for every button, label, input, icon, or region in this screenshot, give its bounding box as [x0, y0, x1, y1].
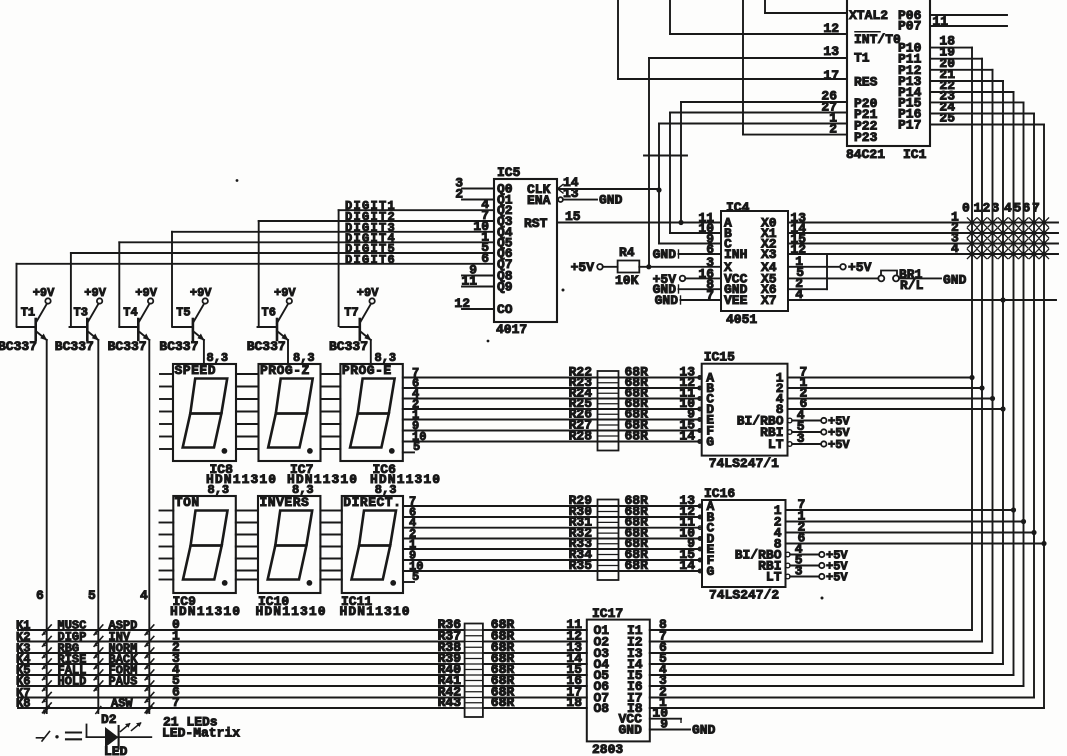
- svg-text:3: 3: [797, 431, 805, 446]
- svg-text:14: 14: [679, 429, 695, 444]
- svg-text:P17: P17: [898, 118, 921, 133]
- svg-text:+9V: +9V: [84, 286, 106, 300]
- svg-text:BC337: BC337: [159, 339, 198, 354]
- svg-text:3: 3: [795, 564, 803, 579]
- svg-text:ENA: ENA: [527, 193, 551, 208]
- svg-text:4: 4: [140, 588, 148, 603]
- svg-text:X7: X7: [761, 293, 777, 308]
- svg-text:DIRECT.: DIRECT.: [343, 495, 401, 510]
- svg-text:8,3: 8,3: [293, 351, 315, 365]
- svg-text:+9V: +9V: [274, 286, 296, 300]
- svg-text:GND: GND: [692, 723, 716, 738]
- svg-text:4051: 4051: [726, 312, 757, 327]
- svg-text:2: 2: [983, 201, 991, 216]
- svg-text:ASW: ASW: [111, 697, 133, 711]
- svg-text:10K: 10K: [615, 273, 639, 288]
- svg-text:O8: O8: [594, 701, 610, 716]
- svg-text:INVERS: INVERS: [260, 495, 310, 510]
- svg-text:Q9: Q9: [497, 280, 513, 295]
- svg-text:INT/T0: INT/T0: [854, 32, 901, 47]
- svg-text:P07: P07: [898, 19, 921, 34]
- svg-text:VEE: VEE: [724, 293, 748, 308]
- svg-text:4: 4: [795, 287, 803, 302]
- svg-text:R4: R4: [619, 245, 635, 260]
- svg-text:68R: 68R: [625, 429, 649, 444]
- svg-text:CO: CO: [497, 302, 513, 317]
- svg-text:LT: LT: [766, 570, 782, 585]
- svg-text:3: 3: [992, 201, 1000, 216]
- svg-text:13: 13: [563, 186, 579, 201]
- svg-text:5: 5: [88, 588, 96, 603]
- svg-text:BC337: BC337: [55, 339, 94, 354]
- svg-text:BC337: BC337: [108, 339, 147, 354]
- svg-text:74LS247/2: 74LS247/2: [709, 588, 779, 603]
- svg-text:DIGIT6: DIGIT6: [345, 253, 396, 267]
- svg-text:HDN11310: HDN11310: [256, 604, 327, 619]
- svg-text:+5V: +5V: [653, 272, 677, 287]
- svg-text:4: 4: [951, 241, 959, 256]
- svg-text:R28: R28: [569, 429, 593, 444]
- svg-text:6: 6: [1023, 201, 1031, 216]
- svg-text:HDN11310: HDN11310: [170, 604, 241, 619]
- svg-text:8,3: 8,3: [207, 351, 229, 365]
- svg-text:GND: GND: [619, 723, 643, 738]
- svg-text:8,3: 8,3: [375, 351, 397, 365]
- svg-text:+5V: +5V: [826, 571, 848, 585]
- svg-text:GND: GND: [655, 293, 679, 308]
- svg-text:PROG-E: PROG-E: [342, 363, 392, 378]
- svg-text:74LS247/1: 74LS247/1: [709, 456, 779, 471]
- svg-text:LED-Matrix: LED-Matrix: [162, 726, 240, 741]
- svg-text:+5V: +5V: [828, 438, 850, 452]
- svg-text:+9V: +9V: [33, 286, 55, 300]
- svg-text:+9V: +9V: [190, 286, 212, 300]
- svg-text:BC337: BC337: [0, 339, 37, 354]
- svg-text:RST: RST: [524, 216, 548, 231]
- svg-text:7: 7: [1032, 201, 1040, 216]
- svg-text:4017: 4017: [496, 322, 527, 337]
- svg-text:HDN11310: HDN11310: [370, 472, 441, 487]
- svg-text:P23: P23: [854, 130, 878, 145]
- svg-text:LT: LT: [768, 437, 784, 452]
- svg-text:1: 1: [974, 201, 982, 216]
- svg-text:0: 0: [962, 201, 970, 216]
- svg-text:T7: T7: [344, 306, 358, 320]
- svg-text:6: 6: [481, 251, 489, 266]
- svg-text:14: 14: [679, 558, 695, 573]
- svg-text:T6: T6: [262, 306, 276, 320]
- svg-text:10: 10: [409, 560, 423, 574]
- svg-text:IC1: IC1: [903, 147, 927, 162]
- svg-text:R35: R35: [569, 558, 593, 573]
- svg-text:68R: 68R: [625, 558, 649, 573]
- svg-text:HDN11310: HDN11310: [206, 472, 277, 487]
- svg-text:BC337: BC337: [329, 339, 368, 354]
- svg-text:PROG-Z: PROG-Z: [260, 363, 310, 378]
- svg-text:IC5: IC5: [497, 165, 521, 180]
- svg-text:+5V: +5V: [848, 260, 872, 275]
- svg-text:XTAL2: XTAL2: [849, 8, 888, 23]
- svg-text:6: 6: [36, 588, 44, 603]
- svg-text:G: G: [706, 435, 714, 450]
- svg-text:T1: T1: [21, 306, 35, 320]
- svg-text:13: 13: [823, 44, 839, 59]
- svg-text:GND: GND: [943, 273, 967, 288]
- svg-text:12: 12: [454, 296, 470, 311]
- svg-text:TON: TON: [175, 495, 200, 510]
- svg-text:HOLD: HOLD: [58, 675, 87, 689]
- svg-text:IC15: IC15: [704, 350, 735, 365]
- svg-text:2: 2: [455, 187, 463, 202]
- svg-text:SPEED: SPEED: [175, 363, 217, 378]
- svg-text:17: 17: [823, 68, 839, 83]
- svg-text:K8: K8: [16, 697, 30, 711]
- svg-text:4: 4: [1004, 201, 1012, 216]
- svg-text:68R: 68R: [491, 695, 515, 710]
- svg-text:11: 11: [461, 274, 477, 289]
- svg-text:D2: D2: [101, 712, 117, 727]
- svg-text:GND: GND: [653, 247, 677, 262]
- svg-text:2803: 2803: [592, 742, 623, 756]
- svg-text:BC337: BC337: [247, 339, 286, 354]
- svg-text:PAUS: PAUS: [109, 675, 138, 689]
- svg-text:GND: GND: [599, 193, 623, 208]
- svg-text:7: 7: [172, 695, 180, 710]
- svg-text:HDN11310: HDN11310: [287, 472, 358, 487]
- svg-text:T4: T4: [123, 306, 137, 320]
- svg-text:+5V: +5V: [571, 260, 595, 275]
- svg-text:IC17: IC17: [592, 606, 623, 621]
- svg-text:5: 5: [1014, 201, 1022, 216]
- svg-text:T5: T5: [176, 306, 190, 320]
- svg-text:IC4: IC4: [726, 200, 750, 215]
- svg-text:+9V: +9V: [357, 286, 379, 300]
- svg-text:15: 15: [565, 209, 581, 224]
- svg-text:R/L: R/L: [900, 278, 924, 293]
- svg-text:5: 5: [413, 440, 420, 454]
- svg-text:9: 9: [660, 717, 668, 732]
- svg-text:LED: LED: [104, 744, 128, 756]
- svg-text:G: G: [707, 564, 715, 579]
- svg-text:T3: T3: [74, 306, 88, 320]
- svg-text:T1: T1: [854, 51, 870, 66]
- svg-text:84C21: 84C21: [846, 147, 885, 162]
- svg-text:+9V: +9V: [135, 286, 157, 300]
- svg-text:RES: RES: [854, 75, 878, 90]
- svg-text:R43: R43: [438, 695, 462, 710]
- svg-text:HDN11310: HDN11310: [340, 604, 411, 619]
- svg-text:18: 18: [566, 695, 582, 710]
